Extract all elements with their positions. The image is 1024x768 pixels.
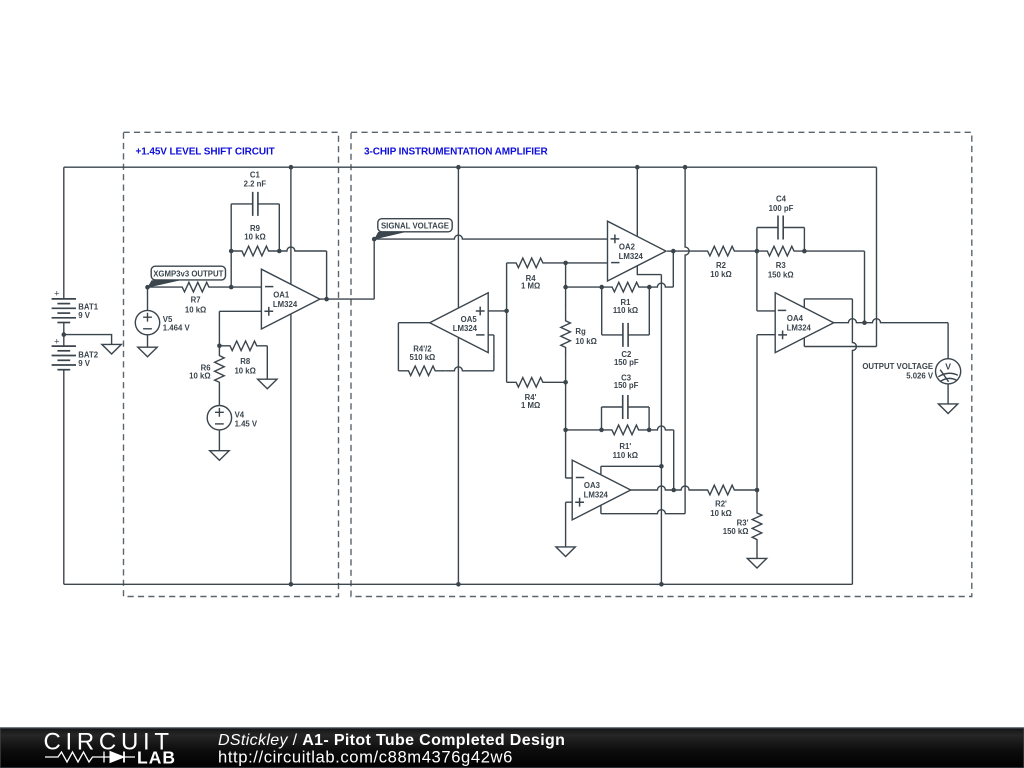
wire: OA3 output to R2' (hops OA2 V- drop and +rail riser)	[631, 486, 692, 490]
wire: OA5 output loop to R4'2	[398, 323, 429, 371]
node: OA2 V+ on rail	[635, 165, 640, 170]
svg-text:OA4: OA4	[787, 314, 804, 323]
node: R1 right junction	[647, 285, 652, 290]
svg-text:150 kΩ: 150 kΩ	[768, 270, 794, 279]
ground (R8)	[258, 379, 277, 389]
node: OA5 V+ on rail	[456, 165, 461, 170]
CircuitLab logo	[44, 729, 176, 768]
svg-text:150 pF: 150 pF	[614, 381, 639, 390]
resistor R1' 110k	[602, 425, 650, 460]
wire: R8 to ground	[266, 346, 268, 379]
resistor R4' 1M	[507, 378, 566, 410]
svg-text:+: +	[54, 288, 60, 299]
wire: OA1 output to signal node riser	[320, 239, 374, 299]
wire: OA5 + input to R4/R4 junction	[488, 310, 506, 312]
ground (R3')	[747, 558, 766, 568]
label callout: XGMP3v3 OUTPUT	[147, 266, 225, 288]
node: OA3 top pin junction on V- drop	[659, 464, 664, 469]
node: OA5 + input node	[504, 309, 509, 314]
node: OA2 V- on bottom rail	[659, 582, 664, 587]
svg-text:9 V: 9 V	[78, 359, 91, 368]
node: R1' left junction	[599, 428, 604, 433]
svg-text:OA5: OA5	[461, 315, 478, 324]
wire: OA3 - input from R1' row	[566, 430, 573, 478]
ground (V5)	[138, 347, 157, 357]
svg-text:10 kΩ: 10 kΩ	[244, 233, 265, 242]
wire: riser from OA3 bottom pin row up to top rail (hops OA3 and OA2 outputs)	[685, 167, 689, 514]
svg-text:10 kΩ: 10 kΩ	[234, 366, 255, 375]
svg-text:+1.45V LEVEL SHIFT CIRCUIT: +1.45V LEVEL SHIFT CIRCUIT	[136, 146, 275, 157]
resistor R3 150k	[757, 246, 805, 279]
svg-text:2.2 nF: 2.2 nF	[244, 179, 267, 188]
svg-text:150 kΩ: 150 kΩ	[723, 527, 749, 536]
svg-text:3-CHIP INSTRUMENTATION AMPLIFI: 3-CHIP INSTRUMENTATION AMPLIFIER	[364, 146, 549, 157]
wire: OA5 V- pin to bottom rail	[457, 338, 459, 585]
wire: branch to R1' left	[566, 429, 602, 431]
svg-text:10 kΩ: 10 kΩ	[189, 372, 210, 381]
wire: OA5 V+ pin to top rail	[457, 167, 459, 308]
wire: C1 right lead down to R9	[278, 204, 280, 251]
ground (battery midpoint)	[102, 344, 121, 354]
svg-text:110 kΩ: 110 kΩ	[613, 306, 638, 315]
resistor R7	[148, 282, 232, 314]
svg-text:OUTPUT VOLTAGE: OUTPUT VOLTAGE	[862, 362, 933, 371]
node: OA3 V+ riser on rail	[683, 165, 688, 170]
node: battery midpoint junction	[62, 332, 67, 337]
footer bar	[0, 728, 1024, 768]
node: R2'/R3'/OA4+ junction	[755, 488, 760, 493]
svg-text:9 V: 9 V	[78, 311, 91, 320]
wire: left rail from top rail to BAT1 +	[63, 167, 65, 299]
wire: OA3 bottom pin to +rail riser (hops OA2 V- drop)	[600, 505, 602, 513]
svg-text:SIGNAL VOLTAGE: SIGNAL VOLTAGE	[381, 222, 449, 231]
svg-text:110 kΩ: 110 kΩ	[613, 451, 638, 460]
wire: R1 right to OA2 feedback (hops OA2 V- drop)	[649, 283, 673, 287]
voltage source V4 1.45 V	[207, 406, 258, 451]
svg-text:510 kΩ: 510 kΩ	[410, 353, 436, 362]
wire: R4 junction to OA2 - input	[566, 262, 608, 264]
resistor R6	[189, 346, 224, 406]
wire: OA4 + input from R2' junction	[757, 335, 775, 490]
node: OA4 output / feedback junction	[862, 320, 867, 325]
wire: OA4 - input from R2/R3 junction	[757, 251, 775, 311]
node: R2/R3/C4/OA4- junction	[755, 249, 760, 254]
wire: OA1 + input to R6/R8 junction	[219, 311, 261, 346]
svg-text:V: V	[945, 361, 951, 371]
wire: OA2 V- pin jog down to bottom rail (hops R1, R1', OA3 rows)	[637, 266, 661, 275]
svg-text:LM324: LM324	[787, 323, 812, 332]
capacitor C3 150pF in parallel with R1'	[602, 373, 650, 430]
wire: OA2 V+ pin to top rail	[636, 167, 638, 236]
svg-text:+: +	[54, 337, 60, 348]
svg-text:C4: C4	[776, 195, 787, 204]
voltage source V5 1.464 V	[135, 287, 190, 347]
svg-text:5.026 V: 5.026 V	[906, 371, 934, 380]
node: R4 right junction	[563, 261, 568, 266]
node: R9 right / C1 junction	[277, 249, 282, 254]
node: R1' row branch	[563, 428, 568, 433]
wire: OA1 V- pin to bottom rail	[290, 314, 292, 584]
wire: OA4 bottom pin jog to top rail (hops OA4 output)	[803, 338, 805, 347]
wire: R4'2 to OA5 - input (hops OA5 V- pin)	[445, 367, 494, 371]
svg-text:R3: R3	[776, 261, 787, 270]
svg-text:1.45 V: 1.45 V	[235, 420, 258, 429]
wire: OA2 feedback down to R1 right	[672, 251, 674, 287]
svg-text:V5: V5	[163, 315, 173, 324]
wire: OA4 output to voltmeter (hops two supply risers)	[834, 319, 948, 323]
op-amp OA1 LM324	[261, 269, 320, 329]
node: OA1 V- on bottom rail	[289, 582, 294, 587]
svg-text:10 kΩ: 10 kΩ	[185, 306, 206, 315]
op-amp OA2 LM324	[608, 221, 667, 281]
op-amp OA3 LM324	[572, 460, 631, 520]
wire: R4-R4' left vertical	[506, 263, 508, 382]
capacitor C1	[231, 170, 279, 216]
node: signal voltage node	[372, 237, 377, 242]
svg-text:OA3: OA3	[584, 481, 601, 490]
svg-text:R8: R8	[240, 357, 251, 366]
node: R4' right junction	[563, 380, 568, 385]
node: XGMP3v3 output node	[145, 285, 150, 290]
node: OA1 V+ on rail	[289, 165, 294, 170]
wire: OA3 + input to ground	[566, 502, 573, 547]
wire: R1' right to OA3 output node (hops OA2 V- drop)	[649, 426, 674, 430]
resistor R4 1M	[507, 258, 566, 290]
node: R1 left junction	[599, 285, 604, 290]
ground (V4)	[210, 451, 229, 461]
svg-text:LM324: LM324	[453, 324, 478, 333]
svg-text:http://circuitlab.com/c88m4376: http://circuitlab.com/c88m4376g42w6	[218, 748, 513, 767]
wire: R3 right to OA4 output (feedback)	[804, 251, 864, 323]
node: R6/R8 junction	[217, 344, 222, 349]
dashed box: 3-chip instrumentation amplifier	[351, 132, 972, 596]
svg-text:OA1: OA1	[273, 290, 290, 299]
voltmeter OUTPUT VOLTAGE	[862, 359, 960, 404]
wire: OA1 V+ pin to top rail	[290, 167, 292, 284]
svg-text:R7: R7	[191, 296, 201, 305]
wire: R4' junction down to R1' row	[565, 382, 567, 430]
svg-text:Rg: Rg	[575, 327, 586, 336]
wire: Rg branch to R1 left	[566, 286, 602, 288]
battery BAT1	[52, 288, 99, 334]
svg-text:1.464 V: 1.464 V	[163, 324, 191, 333]
svg-text:LM324: LM324	[273, 300, 298, 309]
node: R9 left / C1 junction	[229, 249, 234, 254]
svg-text:1 MΩ: 1 MΩ	[521, 282, 540, 291]
wire: junction to OA1 inverting input	[231, 286, 261, 288]
resistor R9	[231, 224, 279, 256]
capacitor C4 100pF in parallel with R3	[757, 195, 805, 252]
resistor R2' 10k	[692, 485, 757, 518]
svg-text:10 kΩ: 10 kΩ	[575, 337, 596, 346]
resistor R1 110k	[602, 282, 650, 315]
svg-text:1 MΩ: 1 MΩ	[521, 401, 540, 410]
node: Rg top branch to R1	[563, 285, 568, 290]
wire: -9V bottom rail	[64, 583, 853, 585]
resistor R4'2 510k	[398, 344, 445, 375]
node: OA5 V- on bottom rail	[456, 582, 461, 587]
ground (OA3 +)	[556, 547, 575, 557]
svg-text:LAB: LAB	[137, 748, 176, 768]
svg-text:C1: C1	[250, 170, 261, 179]
svg-text:OA2: OA2	[619, 242, 636, 251]
node: R1' right junction	[647, 428, 652, 433]
svg-text:XGMP3v3 OUTPUT: XGMP3v3 OUTPUT	[153, 269, 223, 278]
dashed box: +1.45V level shift circuit	[124, 132, 339, 596]
svg-text:150 pF: 150 pF	[614, 358, 639, 367]
wire: OA2 output to R2 (vertical hop of OA3 V+ riser)	[667, 250, 673, 252]
resistor R3' 150k	[723, 490, 762, 558]
resistor Rg with leads	[561, 263, 597, 382]
resistor R8	[219, 341, 267, 375]
svg-text:R2': R2'	[715, 500, 727, 509]
node: OA3 output junction	[671, 488, 676, 493]
ground (voltmeter)	[938, 404, 957, 414]
svg-text:100 pF: 100 pF	[769, 204, 794, 213]
svg-text:LM324: LM324	[584, 491, 609, 500]
wire: BAT2 - down to bottom rail	[63, 370, 65, 585]
svg-text:V4: V4	[235, 410, 245, 419]
node: OA1 output junction	[324, 297, 329, 302]
wire: OA4 top pin jog to bottom rail (hops output and bottom-pin row)	[804, 299, 852, 308]
wire: +9V top rail	[64, 166, 877, 168]
wire: C1 left lead down to R9	[230, 204, 232, 251]
resistor R2 10k	[692, 246, 757, 279]
wire: feedback from R9 to OA1 output (hops OA1 V+ pin)	[279, 247, 326, 251]
label callout: SIGNAL VOLTAGE	[374, 219, 452, 240]
capacitor C2 150pF in parallel with R1	[602, 287, 650, 367]
svg-text:LM324: LM324	[619, 252, 644, 261]
wire: OA3 V+ pin (top) to OA2 V- drop	[601, 466, 662, 474]
wire: battery midpoint to ground	[64, 335, 112, 345]
node: R7 / R9 / OA1 inverting input junction	[229, 285, 234, 290]
battery BAT2	[52, 335, 99, 371]
wire: signal node to OA2 + input (hops OA5 V+ pin)	[374, 235, 607, 239]
svg-text:R2: R2	[716, 261, 727, 270]
wire: R9 left down to OA1 inverting input	[230, 251, 232, 287]
op-amp OA4 LM324	[775, 293, 834, 353]
node: OA2 output junction	[671, 249, 676, 254]
svg-text:10 kΩ: 10 kΩ	[710, 509, 731, 518]
node: R3 right junction	[802, 249, 807, 254]
op-amp OA5 LM324 (mirrored)	[430, 293, 489, 353]
svg-text:R1': R1'	[619, 442, 631, 451]
svg-text:10 kΩ: 10 kΩ	[710, 270, 731, 279]
